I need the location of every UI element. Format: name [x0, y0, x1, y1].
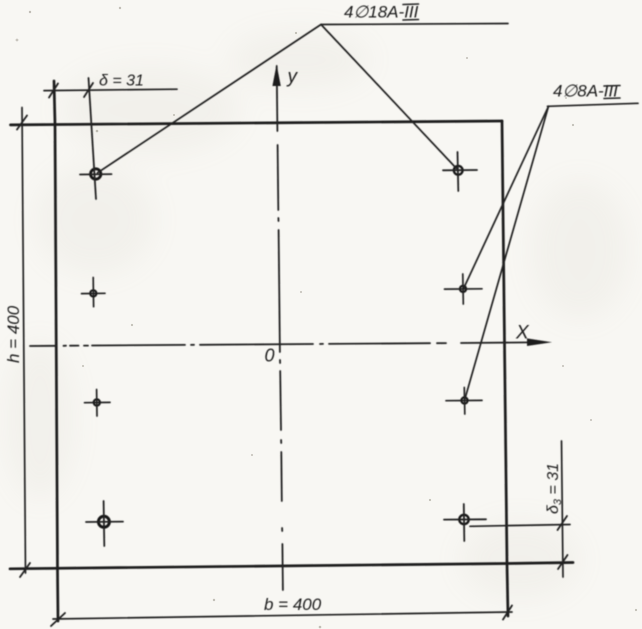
axis X arrowhead — [527, 338, 552, 346]
rebar TL horizontal crosshair — [80, 173, 112, 175]
column outline top edge (with h-dim extension to left) — [11, 121, 503, 125]
III underline — [604, 97, 620, 100]
III underline — [403, 19, 419, 22]
svg-text:δ = 31: δ = 31 — [99, 73, 144, 90]
rebar TR (18mm corner bar) — [454, 166, 463, 175]
svg-text:y: y — [286, 67, 299, 88]
tick at left — [51, 613, 65, 626]
tick at top — [17, 116, 27, 130]
rebar MR-upper crosshairs — [445, 288, 483, 290]
rebar TL (18mm corner bar) — [91, 169, 101, 179]
rebar MR-lower crosshairs — [446, 399, 482, 401]
leader to rebar TR — [321, 25, 457, 169]
rebar BL (18mm corner bar) — [98, 516, 109, 527]
rebar ML-upper (8mm bar) — [90, 290, 96, 296]
dimension b=400 (bottom) dim line — [53, 612, 512, 619]
III overline — [403, 3, 419, 6]
rebar TR vertical crosshair — [457, 152, 460, 191]
svg-text:h = 400: h = 400 — [4, 305, 23, 363]
dimension delta3=31 (right) dim line — [562, 441, 564, 577]
rebar BR (18mm corner bar) — [459, 515, 468, 524]
tick at bottom edge level — [558, 555, 568, 569]
svg-text:0: 0 — [265, 346, 275, 366]
scan artifact: faint specks top-left — [29, 11, 31, 13]
tick at bar level — [558, 516, 568, 530]
rebar TR horizontal crosshair — [443, 169, 477, 171]
svg-text:X: X — [515, 323, 530, 344]
extension line from rebar BR to dim line — [470, 525, 570, 527]
leader to rebar MR-upper — [464, 106, 549, 288]
label 4d18A-III leader shelf — [321, 24, 508, 25]
rebar BR horizontal crosshair — [444, 518, 486, 520]
rebar TL vertical crosshair / delta dim extension line — [89, 78, 97, 199]
dimension h=400 (left) dim line — [22, 108, 26, 574]
tick at bar line — [84, 83, 93, 97]
rebar ML-lower (8mm bar) — [94, 399, 100, 405]
rebar ML-upper crosshairs — [82, 292, 106, 294]
column outline right edge (extended down to b dim) — [502, 121, 508, 616]
axis X (dash-dot centerline, arrow right) — [30, 342, 530, 346]
rebar BL vertical crosshair — [103, 501, 106, 546]
svg-text:b = 400: b = 400 — [264, 595, 322, 614]
III overline — [604, 85, 620, 88]
label 4d8A-III leader shelf — [548, 103, 639, 106]
rebar ML-lower crosshairs — [85, 401, 111, 403]
column outline left edge (extended up to delta dim and down to b dim) — [54, 81, 58, 621]
axis Y (dash-dot centerline, arrow up) — [277, 66, 283, 590]
rebar MR-upper (8mm bar) — [460, 286, 466, 292]
rebar BL horizontal crosshair — [86, 521, 123, 523]
leader to rebar TL — [98, 25, 322, 173]
axis Y arrowhead — [272, 65, 280, 87]
tick at left edge — [49, 84, 58, 98]
column outline bottom edge (extended right to delta3 dim) — [10, 563, 573, 569]
svg-text:δ3 = 31: δ3 = 31 — [545, 463, 564, 514]
rebar BR vertical crosshair — [463, 504, 466, 541]
rebar MR-lower (8mm bar) — [461, 397, 467, 403]
svg-text:4∅18A-III: 4∅18A-III — [344, 3, 419, 22]
tick at right — [503, 606, 512, 620]
leader to rebar MR-lower — [465, 106, 549, 399]
tick at bottom — [20, 563, 30, 577]
dimension delta=31 (top-left) dim line — [44, 89, 177, 90]
